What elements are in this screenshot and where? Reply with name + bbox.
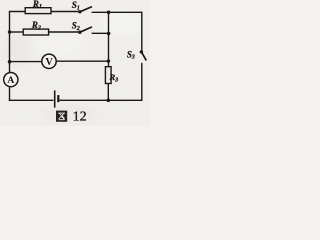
- junction node on left rail at branch2: [8, 30, 12, 34]
- svg-text:12: 12: [73, 109, 87, 124]
- junction node voltmeter branch / middle rail: [107, 59, 111, 63]
- svg-text:A: A: [7, 75, 14, 86]
- switch S1 blade: [80, 7, 92, 12]
- resistor R2 body: [23, 29, 48, 35]
- voltmeter V body: [42, 54, 56, 68]
- resistor R1 body: [25, 8, 51, 14]
- wire right rail upper (corner to S3 pivot): [141, 12, 143, 51]
- caption glyph 图: [56, 111, 66, 121]
- wire top branch right (S1 contact to top-right corner): [92, 11, 142, 13]
- battery positive plate (long): [54, 90, 56, 107]
- battery negative plate (short thick): [57, 95, 59, 102]
- wire right rail lower (S3 contact to bottom-right corner): [141, 63, 143, 101]
- switch S3 blade: [141, 52, 146, 61]
- wire top branch middle (R1 to S1 pivot): [51, 11, 80, 13]
- junction node branch2 / middle rail: [107, 32, 111, 36]
- resistor R3 body (vertical): [105, 67, 111, 84]
- junction node top wire / middle rail: [107, 11, 111, 15]
- switch S2 pivot dot: [78, 31, 81, 34]
- wire left rail upper (top corner to ammeter): [9, 12, 11, 73]
- switch S2 blade: [80, 27, 92, 32]
- wire bottom right (battery to bottom-right corner): [59, 99, 142, 101]
- paper background: [0, 0, 150, 126]
- ammeter A body: [4, 73, 18, 87]
- wire bottom left (corner to battery): [9, 99, 54, 101]
- junction node on left rail at voltmeter branch: [8, 60, 12, 64]
- wire branch2 middle (R2 to S2 pivot): [49, 31, 80, 33]
- switch S1 pivot dot: [78, 10, 81, 13]
- wire middle rail upper (top wire down to R3): [108, 12, 110, 66]
- wire voltmeter branch left (left rail to V): [10, 61, 42, 63]
- switch S3 pivot dot: [140, 50, 143, 53]
- wire left rail lower (ammeter to bottom corner): [9, 87, 11, 101]
- wire branch2 left (left rail to R2): [10, 31, 24, 33]
- wire voltmeter branch right (V to middle rail): [56, 60, 108, 62]
- junction node bottom wire / middle rail: [107, 99, 111, 103]
- wire branch2 right (S2 contact to middle rail): [92, 32, 109, 34]
- wire top branch left (corner to R1): [9, 11, 25, 13]
- wire middle rail lower (R3 to bottom wire): [107, 84, 109, 101]
- svg-text:V: V: [45, 57, 53, 68]
